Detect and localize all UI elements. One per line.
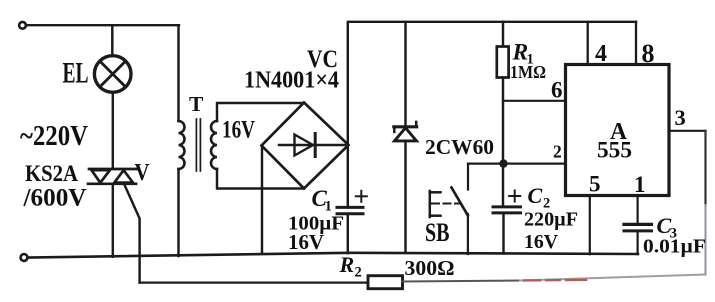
svg-text:16V: 16V bbox=[222, 117, 255, 144]
transformer T primary winding bbox=[179, 121, 185, 169]
red scan artifact dashes bbox=[524, 279, 586, 282]
svg-text:EL: EL bbox=[63, 57, 89, 90]
wire pin1 to C3 bbox=[636, 196, 638, 224]
wire R2 to pin3 (faded) bbox=[403, 281, 521, 282]
wire secondary top to bridge bbox=[217, 103, 304, 121]
switch SB bbox=[430, 188, 468, 218]
op-amp U1 555 box bbox=[566, 65, 670, 196]
capacitor C2 bbox=[493, 207, 521, 213]
resistor R2 bbox=[368, 276, 403, 289]
svg-text:4: 4 bbox=[595, 41, 607, 67]
lamp EL bbox=[94, 56, 131, 93]
svg-text:1MΩ: 1MΩ bbox=[510, 62, 546, 82]
svg-text:6: 6 bbox=[551, 78, 563, 103]
resistor R1 bbox=[497, 22, 509, 206]
wire bridge minus down bbox=[261, 146, 263, 254]
wire C3 to ground rail bbox=[636, 231, 638, 254]
svg-text:2: 2 bbox=[553, 142, 562, 162]
svg-text:1N4001×4: 1N4001×4 bbox=[244, 68, 339, 94]
wire right riser pin3 bbox=[704, 131, 706, 205]
node junction dot bbox=[499, 159, 507, 167]
wire lamp to triac bbox=[112, 92, 114, 168]
svg-text:1: 1 bbox=[325, 199, 333, 215]
svg-text:SB: SB bbox=[425, 218, 450, 247]
svg-text:3: 3 bbox=[675, 105, 686, 130]
svg-text:~220V: ~220V bbox=[20, 121, 88, 152]
svg-text:R: R bbox=[339, 252, 355, 277]
wire top AC bbox=[27, 24, 180, 26]
svg-text:555: 555 bbox=[597, 138, 632, 163]
wire pin4 bbox=[587, 22, 589, 65]
transformer T secondary winding bbox=[211, 121, 217, 169]
wire triac main to ground rail bbox=[112, 184, 114, 257]
wire primary to ground rail bbox=[177, 169, 179, 256]
wire pin5 to ground rail bbox=[589, 196, 591, 255]
ground rail bbox=[27, 253, 638, 258]
svg-text:T: T bbox=[189, 92, 204, 116]
wire SB to ground rail bbox=[467, 214, 469, 254]
svg-text:5: 5 bbox=[589, 172, 601, 197]
svg-text:16V: 16V bbox=[524, 231, 558, 253]
bridge rectifier VC diamond bbox=[262, 103, 349, 189]
svg-text:220µF: 220µF bbox=[524, 209, 578, 231]
C2 plus sign bbox=[509, 191, 520, 202]
svg-text:8: 8 bbox=[642, 39, 655, 68]
bridge internal diode bbox=[279, 134, 345, 157]
svg-text:0.01µF: 0.01µF bbox=[643, 237, 706, 258]
wire pin2 bbox=[468, 163, 566, 165]
wire C1 to ground rail bbox=[347, 214, 349, 253]
terminal BL bbox=[21, 254, 28, 261]
wire left rail (220V to transformer primary) bbox=[177, 25, 179, 121]
wire secondary bottom to bridge bbox=[217, 169, 304, 189]
wire pin6 bbox=[503, 100, 566, 102]
wire to switch SB bbox=[467, 164, 469, 190]
wire lamp branch bbox=[111, 25, 113, 56]
capacitor C3 bbox=[624, 224, 652, 231]
zener 2CW60 bbox=[394, 22, 417, 253]
wire bridge plus to C1 bbox=[347, 145, 349, 206]
svg-text:2CW60: 2CW60 bbox=[425, 135, 494, 159]
capacitor C1 bbox=[337, 207, 363, 213]
svg-text:C: C bbox=[528, 183, 543, 208]
svg-text:16V: 16V bbox=[288, 230, 324, 254]
wire pin8 bbox=[635, 22, 637, 65]
transformer core bbox=[195, 119, 197, 171]
wire pin3 bbox=[669, 130, 706, 132]
svg-text:/600V: /600V bbox=[22, 185, 86, 212]
svg-text:1: 1 bbox=[634, 172, 646, 197]
terminal TL bbox=[19, 22, 26, 29]
C1 plus sign bbox=[356, 191, 367, 202]
triac KS2A bbox=[88, 169, 137, 184]
top rail Vcc bbox=[348, 22, 636, 145]
svg-text:300Ω: 300Ω bbox=[405, 256, 455, 280]
wire triac gate bbox=[125, 185, 140, 283]
svg-text:V: V bbox=[135, 160, 151, 186]
svg-text:2: 2 bbox=[355, 265, 362, 281]
wire C2 to ground rail bbox=[502, 213, 504, 254]
wire gate loop to R2 bbox=[140, 281, 368, 283]
svg-text:KS2A: KS2A bbox=[25, 161, 78, 187]
